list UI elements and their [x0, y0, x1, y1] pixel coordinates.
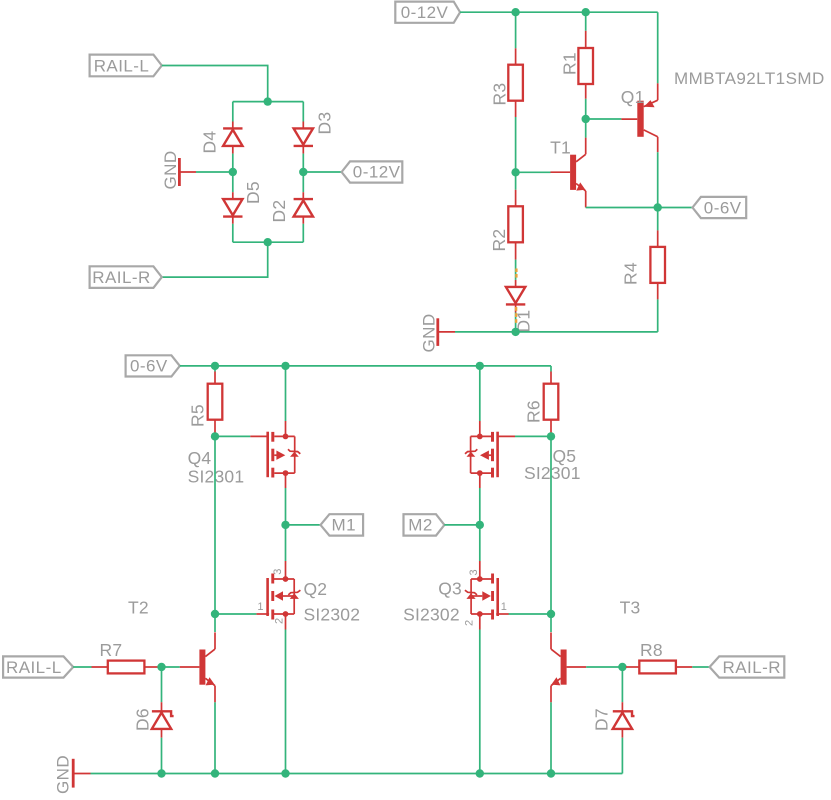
- wire D6 to ground rail: [161, 738, 163, 774]
- net flag M2: [404, 514, 445, 535]
- svg-text:T3: T3: [620, 598, 641, 618]
- wire bridge top rail: [233, 101, 303, 103]
- ground symbol GND (bottom): [54, 755, 91, 794]
- svg-text:1: 1: [257, 601, 263, 613]
- wire GND to bridge: [196, 171, 233, 173]
- svg-text:D7: D7: [592, 708, 612, 731]
- resistor R5: [208, 372, 223, 437]
- wire gate node to T2 collector: [214, 614, 216, 632]
- wire D1 to ground rail: [515, 313, 517, 332]
- mosfet Q5: [465, 421, 515, 488]
- svg-text:D5: D5: [243, 181, 263, 204]
- svg-text:1: 1: [501, 601, 507, 613]
- transistor T3: [551, 632, 586, 702]
- wire bridge to 0-12V flag: [303, 171, 341, 173]
- wire Q2 gate: [215, 613, 256, 615]
- diode D4: [223, 122, 242, 154]
- junction bridge top: [264, 97, 272, 105]
- wire rail to R5: [214, 366, 216, 372]
- svg-text:0-12V: 0-12V: [401, 3, 449, 22]
- wire M2 node to Q3 drain: [479, 525, 481, 561]
- wire left column: [214, 436, 216, 614]
- svg-text:3: 3: [468, 569, 480, 575]
- junction Q5 gate node: [547, 432, 555, 440]
- wire ground rail (top right): [455, 331, 658, 333]
- junction rail at R1: [582, 8, 590, 16]
- wire RAIL-L to bridge top: [162, 66, 268, 102]
- svg-text:SI2302: SI2302: [304, 605, 361, 625]
- resistor R1: [578, 31, 593, 99]
- junction T1 base node: [511, 168, 519, 176]
- svg-text:M2: M2: [408, 516, 433, 535]
- svg-text:MMBTA92LT1SMD: MMBTA92LT1SMD: [674, 69, 825, 88]
- resistor R4: [650, 230, 665, 299]
- svg-text:0-12V: 0-12V: [353, 163, 401, 182]
- net flag RAIL-R (bottom): [710, 656, 785, 677]
- svg-text:M1: M1: [332, 516, 357, 535]
- wire base node to Q1: [586, 118, 622, 120]
- wire Q4 source to M1 node: [285, 488, 287, 525]
- wire Q1 collector down: [657, 152, 659, 207]
- wire M1 node to Q2 drain: [285, 525, 287, 561]
- junction ground at T2: [211, 769, 219, 777]
- junction 0-6V node: [654, 203, 662, 211]
- resistor R6: [544, 372, 559, 437]
- svg-text:D2: D2: [269, 200, 289, 223]
- junction ground at D6: [157, 769, 165, 777]
- svg-text:RAIL-L: RAIL-L: [94, 56, 150, 75]
- wire rail to R1: [585, 12, 587, 31]
- wire Q3 gate: [509, 613, 551, 615]
- transistor T2: [180, 632, 215, 702]
- svg-text:T2: T2: [128, 598, 149, 618]
- resistor R8: [626, 661, 692, 674]
- svg-text:Q2: Q2: [304, 579, 328, 599]
- resistor R2: [508, 190, 523, 260]
- wire left leg upper: [232, 102, 234, 122]
- transistor T1: [551, 138, 586, 208]
- wire rail corner to Q1 emitter: [657, 12, 659, 83]
- svg-text:RAIL-R: RAIL-R: [92, 268, 150, 287]
- svg-text:T1: T1: [550, 138, 571, 158]
- wire bridge bottom rail: [233, 241, 303, 243]
- wire left leg lower: [232, 224, 234, 242]
- svg-text:RAIL-R: RAIL-R: [723, 658, 781, 677]
- svg-text:SI2302: SI2302: [403, 605, 460, 625]
- net flag RAIL-L (top bridge): [90, 55, 162, 77]
- net flag M1: [321, 514, 364, 535]
- overlap marks R2-D1: [515, 269, 517, 278]
- wire T2 emitter down: [214, 702, 216, 773]
- mosfet Q4: [250, 421, 300, 488]
- wire base node to D6: [161, 667, 163, 702]
- junction T2 base node: [157, 663, 165, 671]
- svg-text:SI2301: SI2301: [524, 463, 581, 483]
- svg-text:3: 3: [272, 569, 284, 575]
- svg-text:SI2301: SI2301: [188, 467, 245, 487]
- net flag 0-12V (top right): [395, 2, 460, 23]
- diode D5: [223, 192, 242, 224]
- wire R2 to D1: [515, 260, 517, 280]
- svg-text:R4: R4: [621, 262, 641, 285]
- junction rail at R5: [211, 362, 219, 370]
- junction Q4 gate node: [211, 432, 219, 440]
- wire rail to Q5 drain: [479, 366, 481, 421]
- mosfet Q2: [256, 561, 300, 630]
- wire rail to R3: [515, 12, 517, 48]
- net flag 0-12V (bridge): [342, 161, 403, 182]
- junction Q1 base node: [582, 115, 590, 123]
- svg-text:R3: R3: [490, 83, 510, 106]
- wire right leg middle: [302, 154, 304, 193]
- diode D7: [613, 702, 635, 738]
- wire node to D7: [621, 667, 623, 702]
- wire R7 to T2 base node: [158, 666, 180, 668]
- svg-text:R1: R1: [560, 52, 580, 75]
- diode D3: [294, 122, 313, 154]
- wire R8 to RAIL-R flag: [692, 666, 709, 668]
- net flag 0-6V (bottom): [126, 355, 180, 376]
- svg-text:0-6V: 0-6V: [704, 198, 742, 217]
- wire Q2 source down: [285, 630, 287, 774]
- wire 0-6V node to R4: [657, 208, 659, 231]
- junction rail at Q5: [476, 362, 484, 370]
- wire node to R8: [622, 666, 626, 668]
- svg-text:D4: D4: [200, 131, 220, 154]
- wire R1 to Q1 base node: [585, 99, 587, 119]
- net flag RAIL-L (bottom): [3, 656, 73, 677]
- junction Q3 gate node: [547, 610, 555, 618]
- svg-text:Q1: Q1: [621, 87, 645, 107]
- wire ground rail (bottom): [91, 773, 623, 775]
- junction ground at T3: [547, 769, 555, 777]
- svg-text:R7: R7: [100, 640, 123, 660]
- wire right column: [550, 436, 552, 614]
- overlap marks D1-GND: [515, 307, 517, 323]
- svg-text:R5: R5: [188, 404, 208, 427]
- junction T3 base node: [618, 663, 626, 671]
- wire 0-12V rail: [460, 11, 658, 13]
- wire Q5 gate: [515, 435, 551, 437]
- junction D1 ground: [511, 328, 519, 336]
- junction M1 node: [281, 521, 289, 529]
- net flag 0-6V (top right): [693, 197, 747, 218]
- wire T1 emitter to 0-6V node: [586, 207, 693, 209]
- junction rail at R3: [511, 8, 519, 16]
- wire RAIL-L to R7: [73, 666, 91, 668]
- svg-text:GND: GND: [419, 313, 438, 352]
- wire T3 base to node: [586, 666, 622, 668]
- junction bridge bottom: [264, 238, 272, 246]
- wire D7 to ground rail: [621, 738, 623, 774]
- wire left leg middle: [232, 154, 234, 193]
- wire M2 flag to node: [444, 524, 479, 526]
- mosfet Q3: [465, 561, 509, 630]
- wire rail to R6: [550, 366, 552, 372]
- wire R4 to ground rail: [657, 299, 659, 332]
- svg-text:R6: R6: [524, 400, 544, 423]
- svg-text:Q3: Q3: [438, 579, 462, 599]
- svg-text:GND: GND: [161, 150, 180, 189]
- diode D6: [152, 702, 174, 738]
- wire base node to R2: [515, 172, 517, 190]
- svg-text:D6: D6: [133, 708, 153, 731]
- svg-text:R2: R2: [489, 229, 509, 252]
- transistor Q1: [621, 83, 657, 152]
- svg-text:GND: GND: [54, 755, 73, 794]
- wire 0-6V rail (bottom): [180, 365, 551, 367]
- svg-text:2: 2: [464, 620, 476, 626]
- wire Q3 source down: [479, 630, 481, 774]
- svg-text:0-6V: 0-6V: [130, 357, 168, 376]
- svg-text:Q4: Q4: [188, 448, 212, 468]
- wire M1 node to flag: [286, 524, 321, 526]
- ground symbol GND (top right): [419, 313, 455, 352]
- junction ground at Q2: [281, 769, 289, 777]
- resistor R7: [92, 661, 159, 674]
- junction bridge mid-right: [299, 168, 307, 176]
- wire R3 to T1 base node: [515, 117, 517, 172]
- wire T1 collector up: [585, 119, 587, 138]
- diode D1: [506, 280, 525, 313]
- svg-text:2: 2: [274, 618, 286, 624]
- wire T3 emitter down: [550, 702, 552, 773]
- resistor R3: [508, 48, 523, 117]
- junction rail at Q4: [281, 362, 289, 370]
- ground symbol GND (bridge): [161, 150, 196, 189]
- wire rail to Q4 drain: [285, 366, 287, 421]
- wire right leg upper: [302, 102, 304, 122]
- junction Q2 gate node: [211, 610, 219, 618]
- diode D2: [294, 192, 313, 224]
- svg-text:D3: D3: [315, 112, 335, 135]
- wire Q4 gate: [215, 435, 250, 437]
- junction ground at Q3: [476, 769, 484, 777]
- wire bridge bottom to RAIL-R: [162, 242, 268, 277]
- wire Q5 source to M2 node: [479, 488, 481, 525]
- junction M2 node: [476, 521, 484, 529]
- svg-text:RAIL-L: RAIL-L: [6, 658, 62, 677]
- wire gate node to T3 collector: [550, 614, 552, 632]
- junction bridge mid-left: [229, 168, 237, 176]
- wire T1 base: [516, 171, 551, 173]
- net flag RAIL-R (bridge): [90, 266, 162, 288]
- svg-text:R8: R8: [640, 640, 663, 660]
- wire right leg lower: [302, 224, 304, 242]
